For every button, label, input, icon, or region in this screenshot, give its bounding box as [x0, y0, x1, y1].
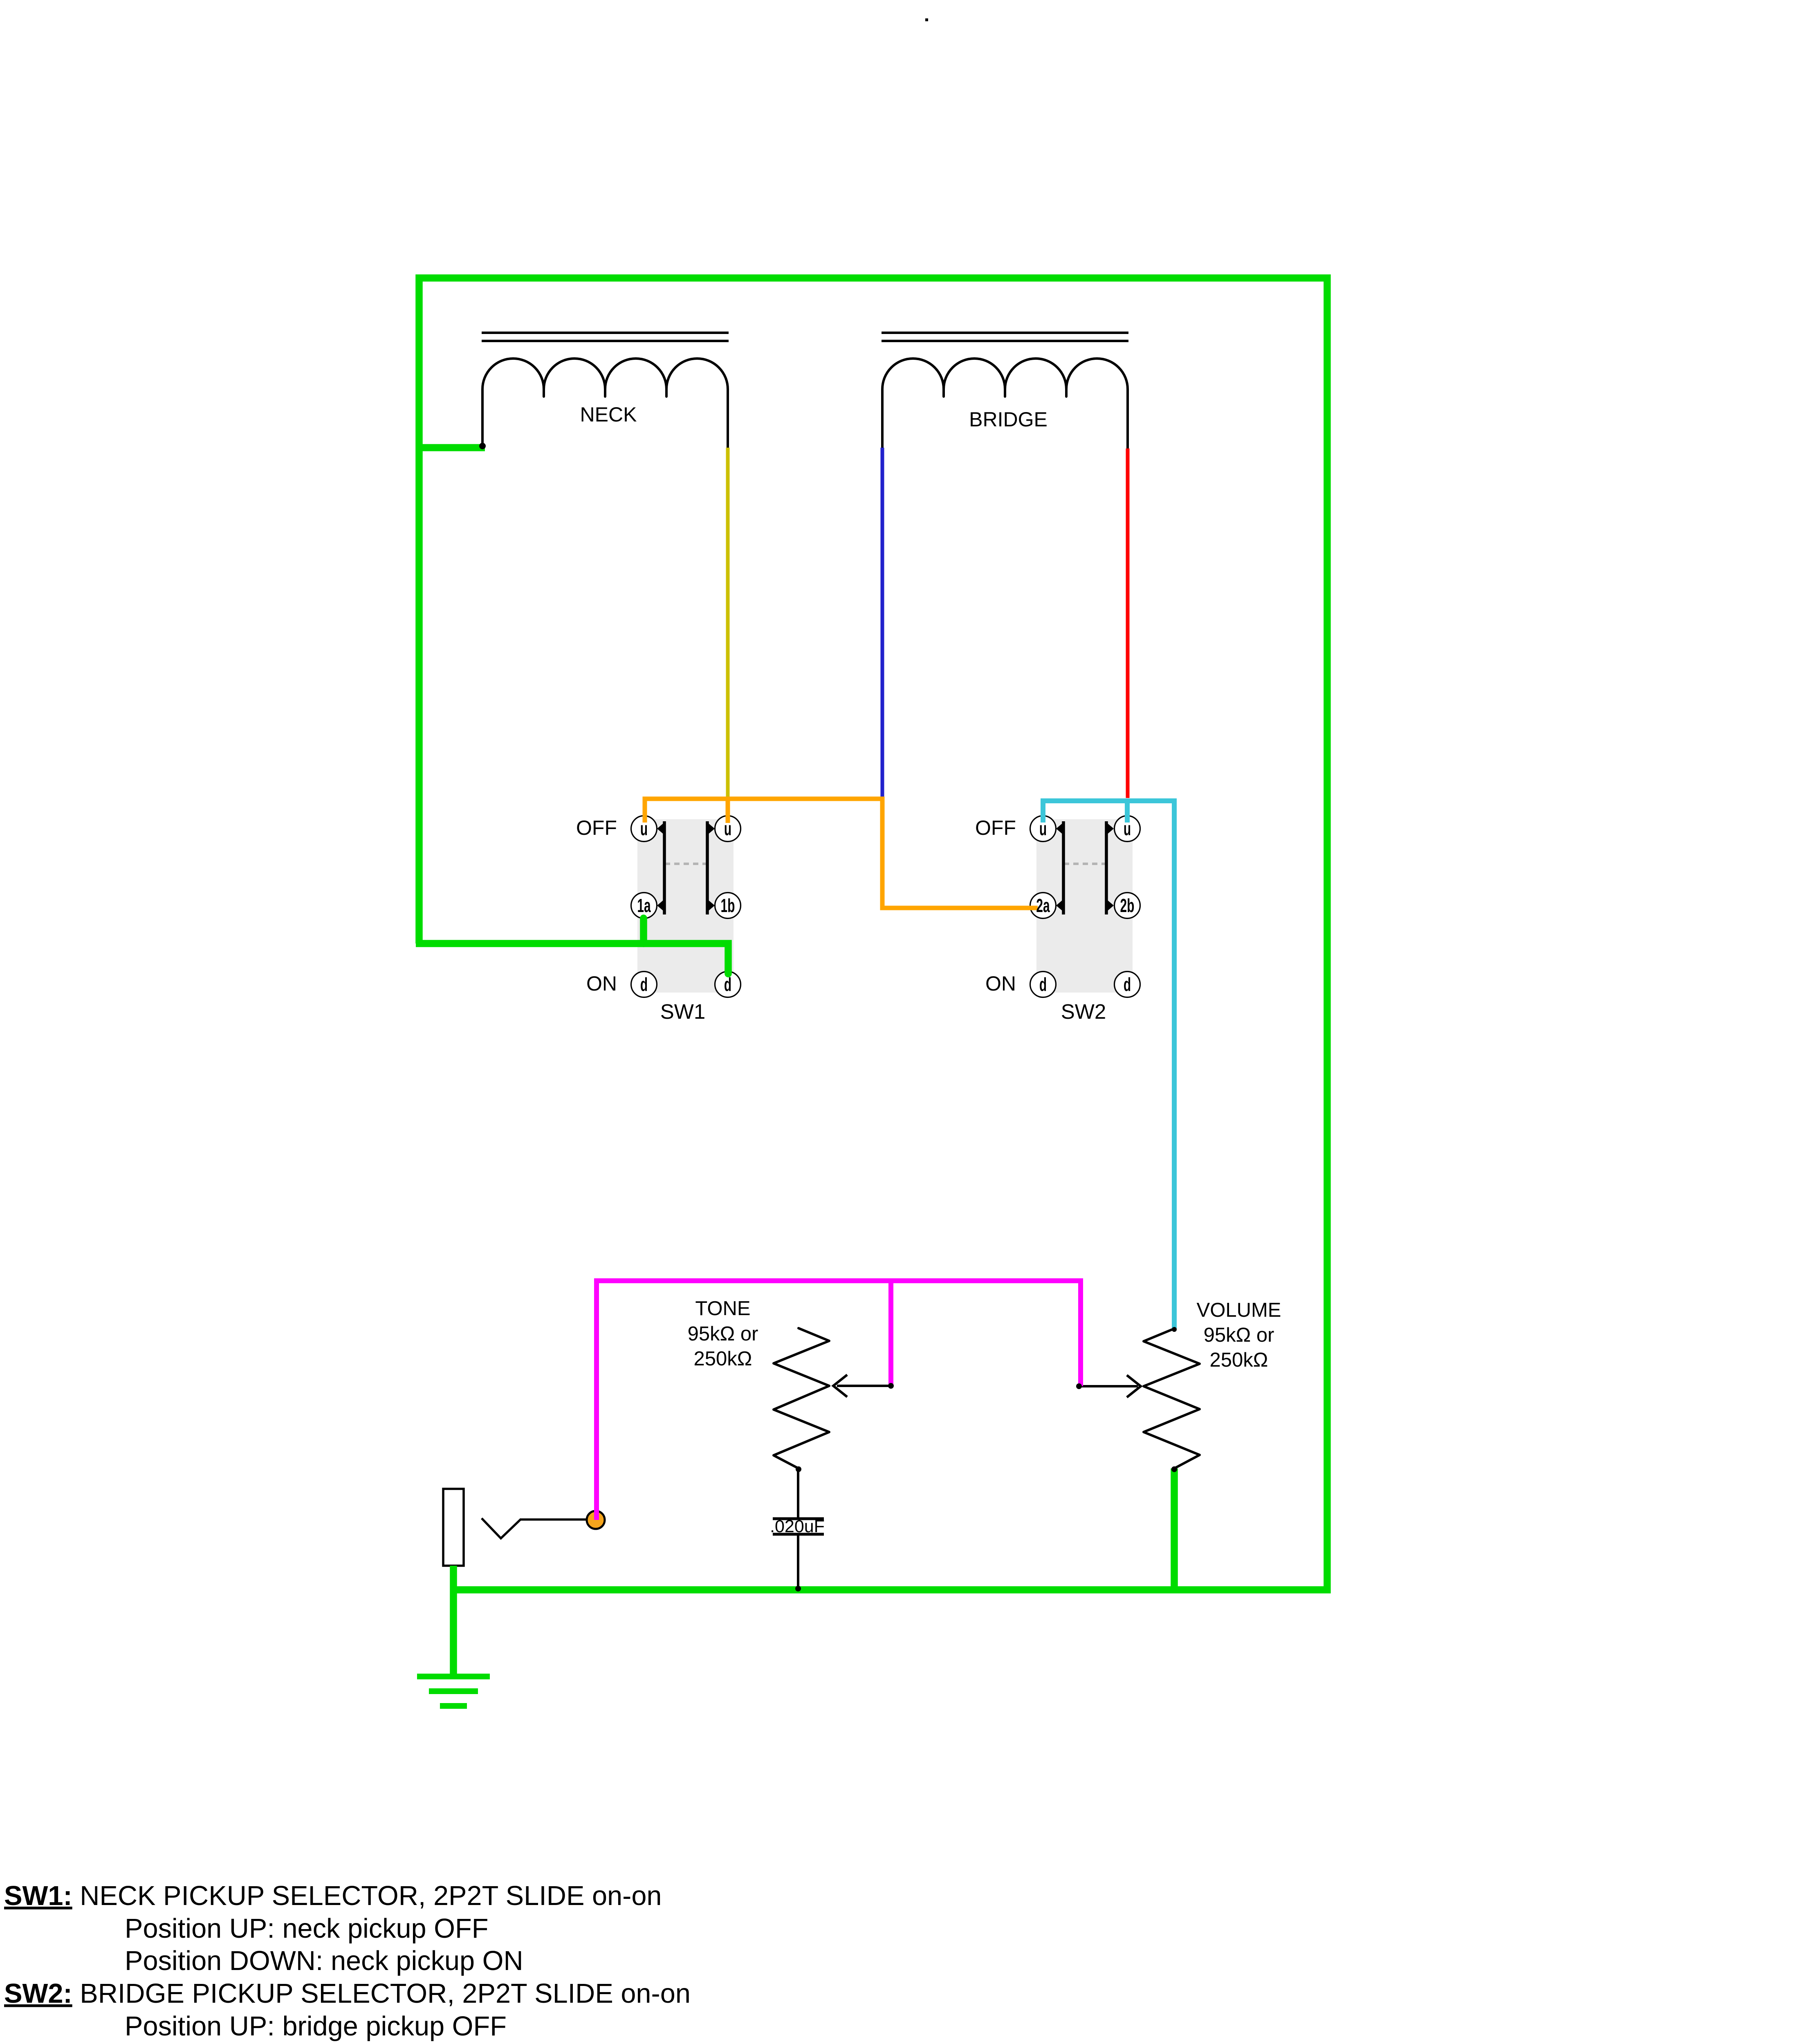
svg-text:OFF: OFF — [576, 816, 617, 839]
svg-text:d: d — [640, 975, 648, 995]
svg-text:250kΩ: 250kΩ — [694, 1348, 752, 1370]
svg-text:250kΩ: 250kΩ — [1210, 1349, 1268, 1371]
svg-text:OFF: OFF — [975, 816, 1016, 839]
svg-text:1a: 1a — [637, 896, 651, 917]
svg-text:95kΩ or: 95kΩ or — [688, 1323, 758, 1345]
svg-text:2b: 2b — [1120, 896, 1135, 917]
svg-text:Position UP: bridge pickup OFF: Position UP: bridge pickup OFF — [125, 2011, 507, 2042]
svg-text:95kΩ or: 95kΩ or — [1204, 1324, 1274, 1346]
svg-text:VOLUME: VOLUME — [1197, 1299, 1281, 1321]
svg-text:ON: ON — [586, 972, 617, 995]
svg-text:u: u — [1039, 819, 1047, 840]
svg-text:u: u — [1124, 819, 1131, 840]
svg-text:1b: 1b — [721, 896, 735, 917]
svg-text:Position UP: neck pickup OFF: Position UP: neck pickup OFF — [125, 1914, 489, 1944]
svg-text:SW2: BRIDGE PICKUP SELECTOR, 2: SW2: BRIDGE PICKUP SELECTOR, 2P2T SLIDE … — [4, 1979, 691, 2009]
svg-text:SW2: SW2 — [1061, 1000, 1106, 1023]
svg-text:.020uF: .020uF — [770, 1517, 825, 1536]
svg-text:SW1: NECK PICKUP SELECTOR, 2P2: SW1: NECK PICKUP SELECTOR, 2P2T SLIDE on… — [4, 1881, 662, 1911]
svg-text:u: u — [724, 819, 731, 840]
svg-text:ON: ON — [985, 972, 1016, 995]
svg-text:2a: 2a — [1036, 896, 1050, 917]
svg-text:NECK: NECK — [580, 403, 637, 426]
svg-text:d: d — [1039, 975, 1047, 995]
svg-text:d: d — [724, 975, 731, 995]
svg-text:TONE: TONE — [695, 1298, 750, 1320]
svg-text:SW1: SW1 — [660, 1000, 706, 1023]
svg-text:Position DOWN: neck pickup ON: Position DOWN: neck pickup ON — [125, 1946, 523, 1976]
svg-text:BRIDGE: BRIDGE — [969, 408, 1048, 431]
svg-text:d: d — [1124, 975, 1131, 995]
svg-text:u: u — [640, 819, 648, 840]
